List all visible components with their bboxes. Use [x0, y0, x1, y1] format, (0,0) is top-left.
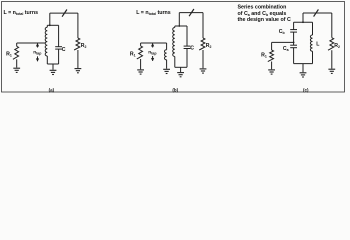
svg-text:C: C [62, 47, 66, 53]
svg-text:Series combination: Series combination [238, 5, 287, 11]
svg-text:Ca: Ca [283, 46, 289, 52]
svg-text:ntap: ntap [33, 51, 41, 56]
svg-text:(c): (c) [303, 88, 309, 93]
svg-text:(a): (a) [49, 88, 55, 93]
svg-text:R2: R2 [334, 43, 340, 49]
svg-text:R1: R1 [130, 52, 136, 58]
svg-text:R2: R2 [206, 43, 212, 49]
svg-text:(b): (b) [172, 88, 178, 93]
svg-text:Cb: Cb [279, 29, 285, 35]
svg-text:R1: R1 [6, 52, 12, 58]
svg-text:of Ca and Cb equals: of Ca and Cb equals [238, 11, 287, 17]
svg-text:the design value of C: the design value of C [238, 17, 291, 23]
svg-text:R1: R1 [261, 52, 267, 58]
svg-text:R2: R2 [81, 43, 87, 49]
svg-text:C: C [190, 46, 194, 52]
svg-text:L: L [316, 42, 320, 48]
svg-text:L = ntotal turns: L = ntotal turns [136, 10, 171, 16]
svg-text:L = ntotal turns: L = ntotal turns [4, 10, 39, 16]
svg-text:ntap: ntap [148, 51, 156, 56]
